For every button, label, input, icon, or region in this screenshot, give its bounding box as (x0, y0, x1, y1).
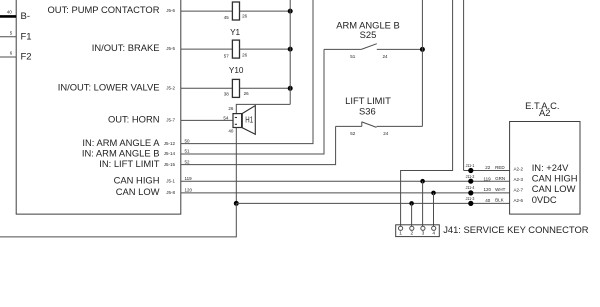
svg-text:50: 50 (185, 138, 191, 143)
coil Y1 (232, 40, 239, 58)
junction 0VDC tap (409, 201, 414, 206)
wire net 40 into B- (thick) (0, 15, 16, 18)
svg-text:J11-4: J11-4 (466, 185, 475, 190)
svg-text:57: 57 (224, 54, 230, 59)
svg-text:A2-2: A2-2 (514, 167, 524, 172)
wire tap to J41-2 (411, 203, 413, 226)
horn flare (242, 106, 255, 135)
svg-text:A2-3: A2-3 (514, 177, 524, 182)
svg-text:IN: +24V: IN: +24V (532, 162, 569, 173)
ETAC box A2 (510, 122, 580, 215)
junction (288, 47, 293, 52)
svg-text:38: 38 (224, 92, 230, 97)
svg-text:3: 3 (422, 230, 425, 236)
svg-text:J5-1: J5-1 (166, 178, 175, 183)
junction (288, 86, 293, 91)
svg-text:CAN HIGH: CAN HIGH (532, 173, 578, 184)
junction (288, 9, 293, 14)
wire F1 (0, 36, 16, 38)
pin 3 circle (421, 226, 425, 230)
svg-text:WHT: WHT (495, 187, 505, 192)
svg-text:J5-15: J5-15 (164, 162, 176, 167)
svg-text:J5-5: J5-5 (166, 46, 175, 51)
svg-text:OUT: PUMP CONTACTOR: OUT: PUMP CONTACTOR (48, 4, 160, 15)
svg-text:J5-12: J5-12 (164, 141, 176, 146)
wire horn bottom to node 40 (235, 128, 237, 204)
wire J5-6 to coil (181, 10, 233, 12)
svg-text:B-: B- (21, 11, 31, 22)
wire 40 row to ETAC (236, 202, 509, 204)
svg-text:J11-1: J11-1 (466, 163, 475, 168)
wire J5-5 to coil Y1 (181, 48, 233, 50)
svg-text:40: 40 (7, 10, 13, 15)
svg-text:51: 51 (350, 54, 356, 59)
svg-text:52: 52 (350, 131, 356, 136)
switch S25 (324, 48, 361, 50)
wire 119 CAN HIGH (181, 180, 510, 182)
svg-text:GRN: GRN (495, 176, 505, 181)
wire 50 (181, 0, 313, 144)
svg-text:4: 4 (432, 230, 435, 236)
svg-text:119: 119 (484, 176, 492, 181)
wire coil to bus (240, 10, 291, 12)
svg-text:24: 24 (383, 131, 389, 136)
wire Y10 to bus (240, 87, 291, 89)
junction CAN LOW tap (431, 191, 436, 196)
svg-text:IN: ARM ANGLE B: IN: ARM ANGLE B (82, 147, 160, 158)
svg-text:BLK: BLK (495, 198, 504, 203)
junction CAN HIGH tap (420, 179, 425, 184)
svg-text:J11-2: J11-2 (466, 174, 475, 179)
wire F2 (0, 56, 16, 58)
svg-text:J11-3: J11-3 (466, 196, 475, 201)
svg-text:45: 45 (224, 15, 230, 20)
svg-text:F1: F1 (21, 31, 32, 42)
wire tap to J41-3 (422, 181, 424, 226)
pin J11-4 (468, 190, 473, 195)
svg-text:40: 40 (485, 198, 491, 203)
svg-text:A2-7: A2-7 (514, 187, 524, 192)
svg-text:CAN HIGH: CAN HIGH (114, 175, 160, 186)
wire bus to horn top (236, 104, 290, 113)
horn polarity marks (235, 117, 237, 119)
pin 1 circle (399, 226, 403, 230)
controller box (left edge / right edge / bottom, top cut off) (16, 0, 181, 214)
svg-text:1: 1 (399, 230, 402, 236)
svg-text:54: 54 (223, 115, 229, 120)
svg-text:22: 22 (485, 165, 491, 170)
net 26 bus vertical (289, 0, 291, 104)
svg-text:RED: RED (495, 165, 505, 170)
pin J11-1 (468, 168, 473, 173)
svg-text:A2-6: A2-6 (514, 198, 524, 203)
svg-text:F2: F2 (21, 52, 32, 63)
svg-text:J5-7: J5-7 (166, 118, 175, 123)
svg-text:Y1: Y1 (230, 28, 240, 37)
svg-text:S25: S25 (360, 29, 377, 40)
junction S25/net24 (420, 47, 425, 52)
connector J41 box (396, 225, 440, 237)
svg-text:H1: H1 (245, 115, 253, 124)
coil Y10 (232, 79, 239, 97)
pin J11-3 (468, 201, 473, 206)
svg-text:2: 2 (410, 230, 413, 236)
svg-text:26: 26 (228, 106, 234, 111)
svg-text:52: 52 (185, 159, 191, 164)
service key feed from top (401, 0, 453, 226)
net 22 vertical from top (463, 0, 465, 171)
svg-text:IN: ARM ANGLE A: IN: ARM ANGLE A (82, 137, 160, 148)
wire 22 RED to ETAC (464, 170, 510, 172)
pin 4 circle (432, 226, 436, 230)
svg-text:40: 40 (228, 128, 234, 133)
svg-text:J5-6: J5-6 (166, 8, 175, 13)
svg-text:26: 26 (242, 52, 248, 57)
svg-text:J5-8: J5-8 (166, 190, 175, 195)
svg-text:IN/OUT: BRAKE: IN/OUT: BRAKE (92, 42, 160, 53)
wire 120 CAN LOW (181, 192, 510, 194)
horn H1 body (233, 114, 242, 128)
pin J11-2 (468, 179, 473, 184)
wire Y1 to bus (240, 48, 291, 50)
svg-text:0VDC: 0VDC (532, 194, 557, 205)
svg-text:24: 24 (382, 54, 388, 59)
svg-text:S36: S36 (359, 105, 376, 116)
node 40 junction at horn drop (234, 201, 239, 206)
svg-text:J5-14: J5-14 (164, 151, 176, 156)
pin 2 circle (410, 226, 414, 230)
svg-text:CAN LOW: CAN LOW (532, 183, 576, 194)
wire J5-7 to horn (181, 119, 233, 121)
svg-text:51: 51 (185, 149, 191, 154)
svg-text:26: 26 (244, 91, 250, 96)
svg-text:A2: A2 (539, 107, 550, 118)
svg-text:120: 120 (484, 187, 492, 192)
wire 52 (181, 126, 336, 164)
wire 40 return to left (0, 203, 236, 237)
svg-text:120: 120 (185, 188, 193, 193)
svg-text:IN/OUT: LOWER VALVE: IN/OUT: LOWER VALVE (58, 82, 160, 93)
svg-text:Y10: Y10 (229, 66, 244, 75)
svg-text:OUT: HORN: OUT: HORN (108, 114, 160, 125)
wire tap to J41-4 (433, 193, 435, 226)
svg-text:J41: SERVICE KEY CONNECTOR: J41: SERVICE KEY CONNECTOR (443, 224, 589, 235)
wire J5-2 to coil Y10 (181, 87, 233, 89)
switch S36 (336, 125, 362, 127)
net 24 vertical (421, 0, 423, 126)
svg-text:26: 26 (242, 14, 248, 19)
svg-text:J5-2: J5-2 (166, 86, 175, 91)
svg-text:IN: LIFT LIMIT: IN: LIFT LIMIT (99, 158, 160, 169)
svg-text:119: 119 (185, 176, 193, 181)
svg-text:CAN LOW: CAN LOW (116, 186, 160, 197)
pump contactor coil (232, 2, 239, 20)
wire 51 (181, 49, 324, 154)
